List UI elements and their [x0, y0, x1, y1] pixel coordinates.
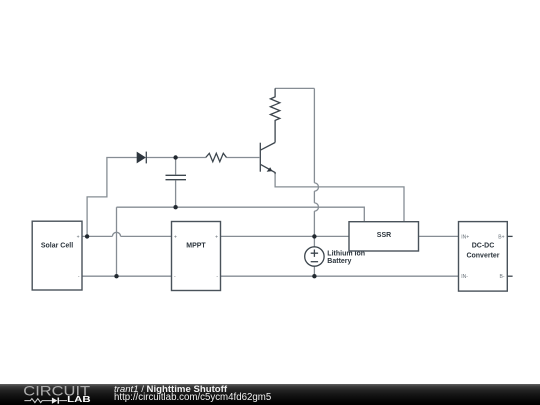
- svg-text:Battery: Battery: [327, 258, 351, 265]
- wire: collector top rail: [275, 87, 314, 89]
- footer title line: [114, 385, 227, 395]
- svg-text:Converter: Converter: [466, 253, 499, 260]
- wire: resistor to transistor base: [227, 157, 260, 159]
- wire: emitter wire y=187 to SSR: [275, 174, 404, 221]
- junction: cap bottom on control wire: [173, 205, 177, 209]
- wire hop: vertical over emitter wire at (314.4,187): [314, 183, 318, 191]
- svg-text:IN+: IN+: [461, 234, 469, 240]
- svg-text:IN-: IN-: [461, 274, 468, 280]
- svg-text:+: +: [174, 234, 177, 240]
- capacitor C1: [166, 175, 187, 179]
- footer bar: [0, 384, 540, 405]
- block DC-DC converter: [459, 222, 513, 292]
- wire: ssr output to dc-dc: [419, 235, 459, 237]
- battery BAT1: [305, 247, 324, 266]
- wire hop: plus rail over vertical at (116.5,236.4): [112, 232, 120, 236]
- wire: vertical x=116.5 from control wire to bottom rail: [116, 207, 118, 276]
- diode D1: [137, 152, 147, 164]
- block MPPT: [172, 222, 221, 291]
- junction: solar plus node: [85, 234, 89, 238]
- svg-text:SSR: SSR: [377, 232, 391, 239]
- circuitlab logo: [0, 384, 110, 405]
- resistor R2 (collector): [270, 88, 279, 142]
- svg-text:+: +: [77, 234, 80, 240]
- wire hop: vertical over control wire at (314.4,207): [314, 203, 318, 211]
- svg-text:Solar Cell: Solar Cell: [41, 242, 73, 249]
- wire: SSR control wire y=207: [117, 207, 365, 221]
- svg-text:+: +: [215, 234, 218, 240]
- wire: minus rail mppt to dc-dc: [221, 275, 459, 277]
- junction: control-to-minus node: [114, 274, 118, 278]
- wire: diode anode feed: [87, 158, 137, 236]
- svg-text:B-: B-: [500, 274, 505, 280]
- block Solar Cell: [32, 221, 82, 290]
- wire: battery bottom lead: [313, 266, 315, 276]
- wire: capacitor top lead: [175, 158, 177, 175]
- junction: cap node on base wire: [173, 155, 177, 159]
- resistor R1 (base): [206, 153, 227, 161]
- wire: battery top lead: [313, 236, 315, 246]
- footer url line: [114, 393, 271, 403]
- junction: battery minus node: [312, 274, 316, 278]
- wire: plus rail mppt to ssr: [221, 235, 350, 237]
- wire: capacitor bottom lead: [175, 180, 177, 207]
- wire: minus rail solar to mppt: [82, 275, 172, 277]
- block SSR: [349, 222, 419, 251]
- wire: right vertical bus x=314.4 with hops over y=187 and y=207 wires: [313, 88, 315, 236]
- junction: battery plus node: [312, 234, 316, 238]
- wire: diode cathode to junction to resistor: [147, 157, 206, 159]
- transistor Q1 NPN: [260, 143, 275, 175]
- svg-text:DC-DC: DC-DC: [472, 242, 495, 249]
- svg-text:B+: B+: [498, 234, 504, 240]
- wire: plus rail solar to mppt with hop over x=116.5: [82, 235, 172, 237]
- svg-text:MPPT: MPPT: [186, 242, 206, 249]
- svg-text:LAB: LAB: [67, 394, 91, 404]
